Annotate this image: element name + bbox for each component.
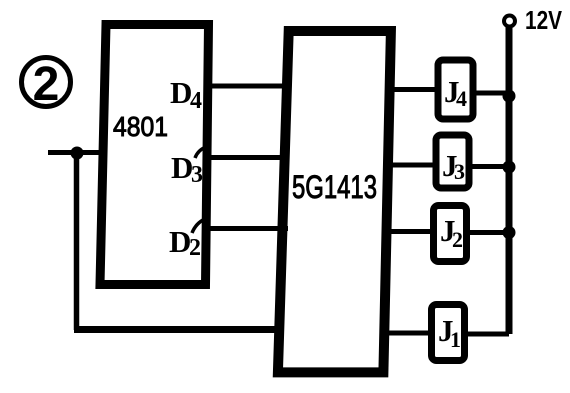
wire J1 to rail [465, 332, 509, 337]
wire bottom feedback [74, 326, 282, 333]
wire U2 to J3 [386, 163, 436, 168]
wire U2 to J4 [388, 87, 438, 92]
svg-text:4801: 4801 [113, 111, 168, 142]
wire 12V supply rail [506, 27, 513, 334]
relay label J1 [438, 313, 461, 352]
figure number 2 [22, 58, 71, 112]
junction rail J3 [503, 161, 516, 174]
svg-text:2: 2 [189, 235, 201, 261]
relay label J2 [440, 213, 463, 252]
relay label J3 [442, 148, 465, 184]
wire input vertical [74, 152, 80, 330]
relay label J4 [444, 74, 467, 111]
pin label D2 [169, 224, 201, 261]
wire D3 to U2 [206, 155, 289, 160]
svg-text:1: 1 [450, 327, 461, 352]
wire U2 to J1 [384, 331, 432, 336]
wire D4 to U2 [206, 84, 290, 89]
IC U1 4801 box [100, 25, 209, 285]
pin D3 tick [195, 147, 206, 158]
svg-text:2: 2 [452, 227, 463, 252]
12V supply terminal [504, 16, 515, 27]
wire D2 to U2 [205, 226, 288, 231]
svg-text:4: 4 [456, 86, 467, 111]
svg-text:4: 4 [190, 88, 202, 114]
relay K2 box J2 [434, 206, 467, 262]
svg-text:3: 3 [454, 159, 465, 184]
svg-text:3: 3 [191, 162, 203, 188]
relay K3 box J3 [436, 135, 469, 188]
relay K1 box J1 [432, 305, 465, 361]
svg-text:2: 2 [33, 58, 60, 111]
wire U2 to J2 [385, 229, 434, 234]
relay K4 box J4 [438, 60, 473, 119]
pin label D4 [170, 75, 202, 114]
junction rail J2 [503, 226, 516, 239]
junction input node [71, 147, 84, 160]
wire input horizontal [48, 150, 103, 155]
IC U2 5G1413 box [278, 31, 391, 372]
junction rail J4 [503, 90, 516, 103]
pin label D3 [171, 150, 203, 188]
pin D2 tick [192, 219, 205, 233]
svg-text:12V: 12V [525, 5, 563, 35]
wire J4 to rail [473, 91, 508, 96]
wire J3 to rail [469, 164, 508, 169]
svg-text:5G1413: 5G1413 [292, 169, 377, 205]
wire J2 to rail [467, 230, 508, 235]
